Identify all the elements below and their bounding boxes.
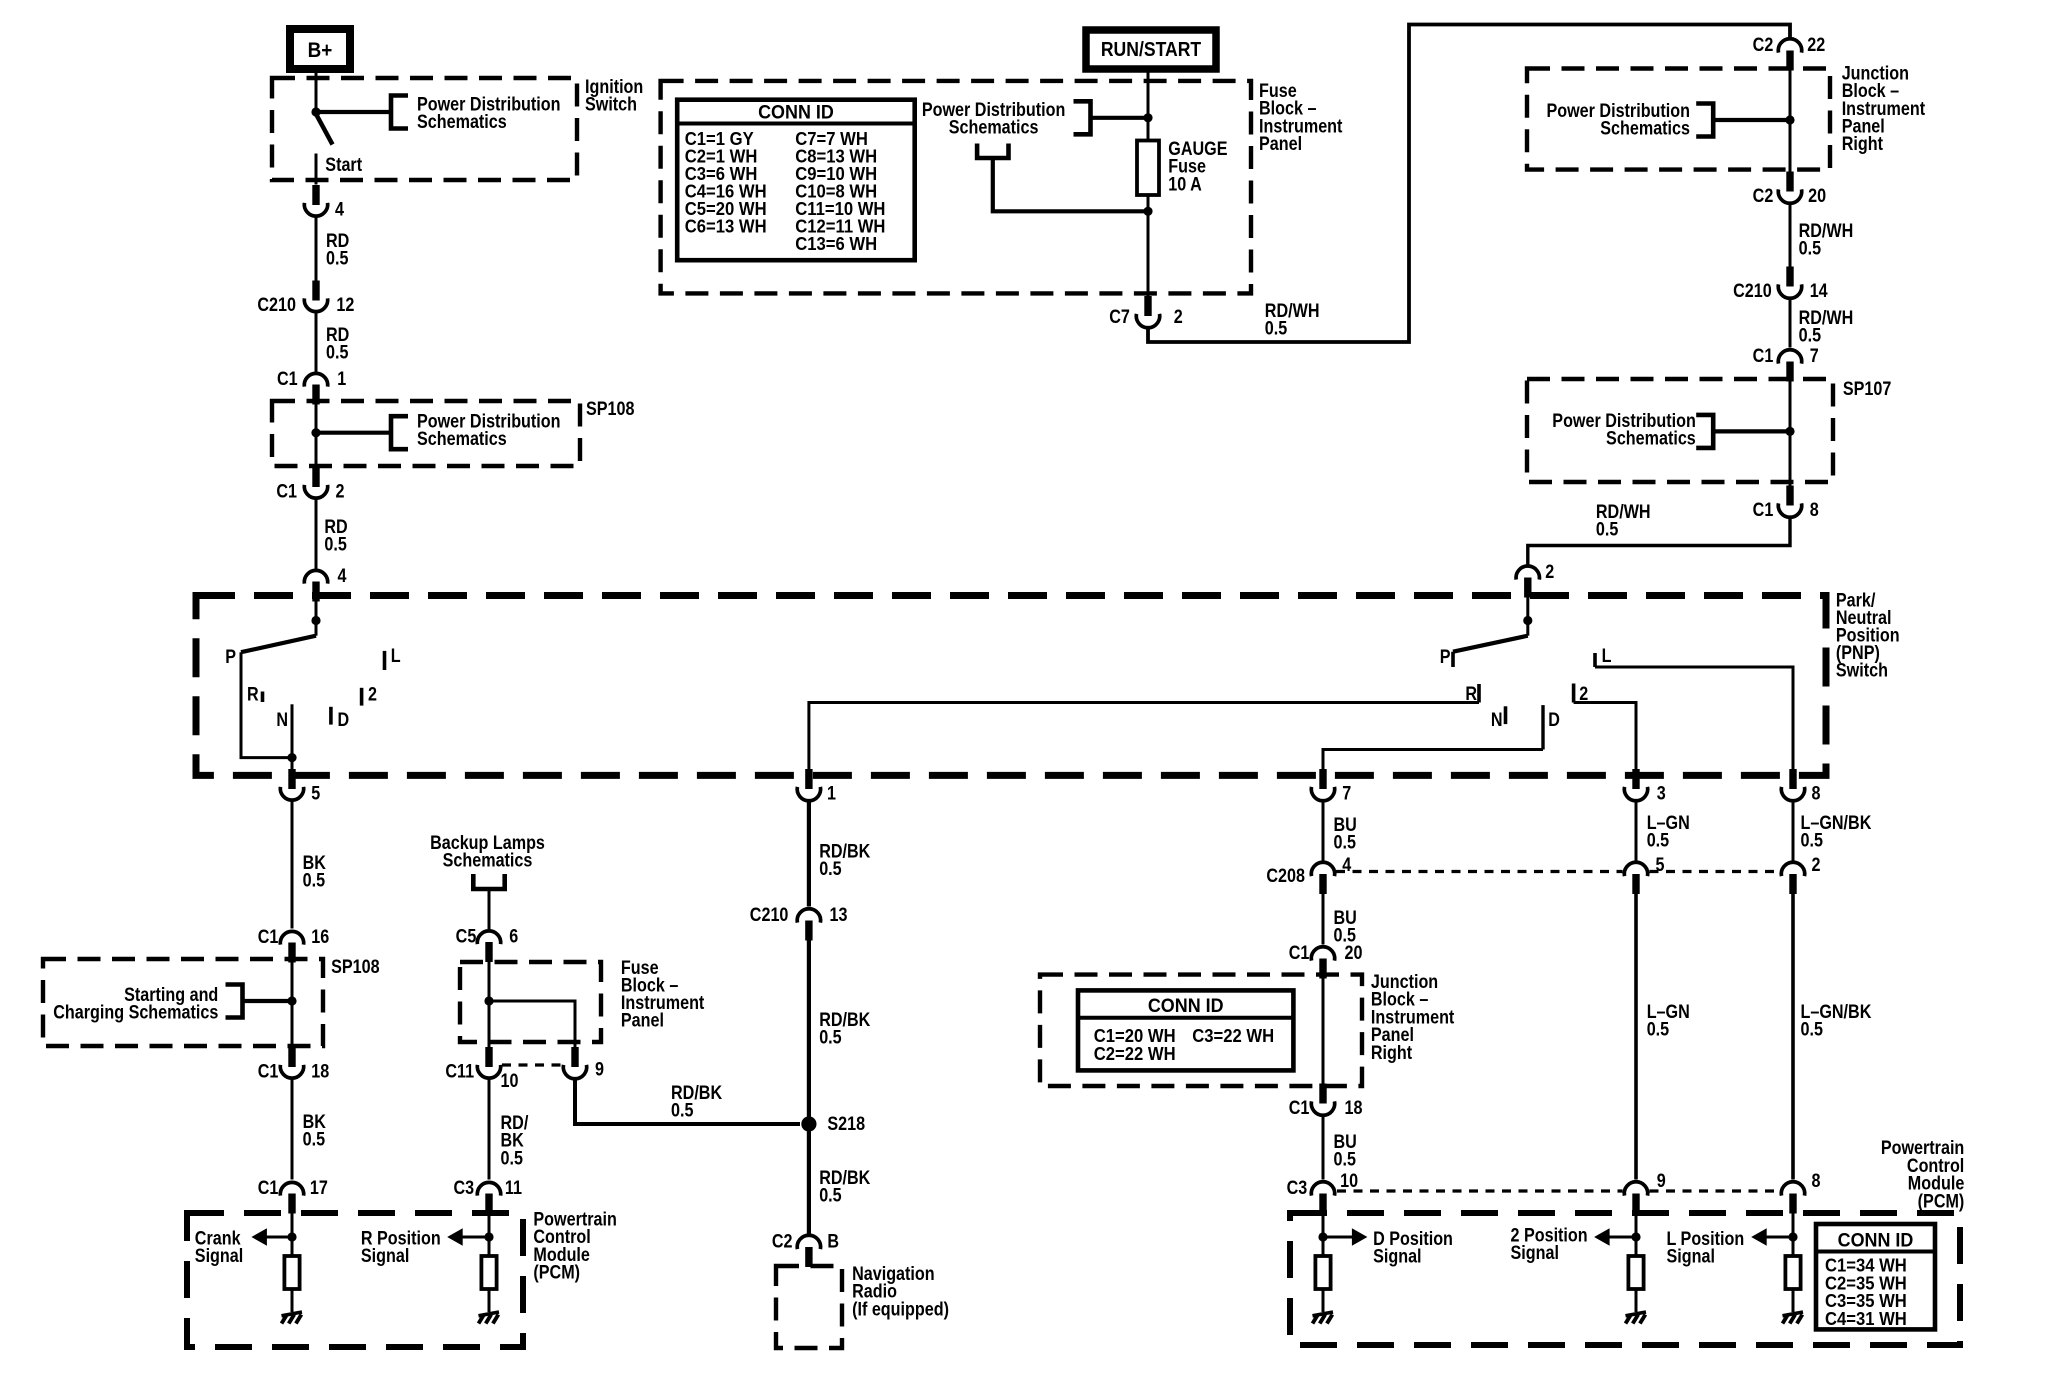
wire L-GN seg1 bbox=[1635, 800, 1638, 861]
svg-text:8: 8 bbox=[1810, 499, 1819, 521]
connector C210 pin 13 bbox=[797, 909, 820, 941]
table CONN ID (PCM) bbox=[1816, 1224, 1935, 1329]
svg-text:Signal: Signal bbox=[195, 1245, 243, 1267]
pin 10 label bbox=[501, 1070, 519, 1092]
svg-text:S218: S218 bbox=[827, 1113, 865, 1135]
svg-text:C13=6 WH: C13=6 WH bbox=[795, 233, 877, 254]
svg-text:2: 2 bbox=[368, 683, 377, 705]
svg-text:N: N bbox=[276, 709, 288, 731]
svg-text:C2=22 WH: C2=22 WH bbox=[1094, 1043, 1176, 1064]
pin 3 label bbox=[1657, 782, 1666, 804]
label C208 bbox=[1266, 865, 1305, 887]
svg-text:Switch: Switch bbox=[585, 93, 637, 115]
svg-text:20: 20 bbox=[1345, 942, 1363, 964]
pin 7 label bbox=[1810, 345, 1819, 367]
label R (left) bbox=[247, 683, 259, 705]
svg-text:N: N bbox=[1491, 709, 1503, 731]
resistor PCM D position bbox=[1315, 1256, 1330, 1289]
label L (right) bbox=[1602, 645, 1612, 667]
fuse block - instrument panel box (small) bbox=[460, 962, 601, 1042]
splice S218 bbox=[801, 1116, 816, 1131]
label GAUGE Fuse 10 A bbox=[1168, 138, 1227, 195]
arrow R position signal bbox=[447, 1228, 463, 1246]
reference bracket starting and charging bbox=[226, 985, 243, 1018]
junction L position signal bbox=[1788, 1232, 1797, 1241]
pin 20 label bbox=[1808, 185, 1826, 207]
svg-text:0.5: 0.5 bbox=[1799, 324, 1822, 346]
svg-text:C4=31 WH: C4=31 WH bbox=[1825, 1308, 1907, 1329]
splice SP108 bottom junction bbox=[287, 996, 296, 1005]
wire label BU (1) bbox=[1334, 814, 1357, 853]
svg-text:1: 1 bbox=[827, 782, 836, 804]
label C2 (B) bbox=[772, 1230, 793, 1252]
label C1 (18 left) bbox=[258, 1060, 279, 1082]
wire label RD 0.5 (3) bbox=[324, 516, 347, 555]
ignition switch box bbox=[272, 78, 577, 180]
wire RUN/START to fuse bbox=[1147, 69, 1150, 141]
svg-text:R: R bbox=[247, 683, 259, 705]
wire label RD/BK (3) bbox=[819, 1167, 870, 1206]
reference bracket power distribution (fuse bottom) bbox=[977, 144, 1008, 159]
ground (2 position) bbox=[1626, 1312, 1647, 1324]
svg-text:0.5: 0.5 bbox=[1801, 1018, 1824, 1040]
wire fuse to C7 bbox=[1147, 195, 1150, 296]
wire P contact to pin 5 (left) bbox=[241, 652, 292, 757]
connector C210 pin 12 bbox=[304, 281, 327, 312]
wire label BK 0.5 (2) bbox=[303, 1111, 327, 1150]
wire label L-GN/BK (1) bbox=[1801, 812, 1872, 851]
pin 8 label (PCM) bbox=[1812, 1170, 1821, 1192]
pin 9 label bbox=[595, 1058, 604, 1080]
pin B label bbox=[827, 1230, 839, 1252]
junction block - instrument panel right box (top) bbox=[1527, 69, 1830, 170]
label Power Distribution Schematics (SP107) bbox=[1552, 410, 1696, 449]
connector C1 pin 20 bbox=[1311, 947, 1334, 979]
table CONN ID (junction block) bbox=[1078, 990, 1293, 1070]
reference bracket power distribution (junction) bbox=[1696, 104, 1713, 137]
contact N (right) bbox=[1504, 706, 1508, 724]
connector pin 4 (ignition switch) bbox=[304, 185, 327, 216]
junction crank signal bbox=[287, 1232, 296, 1241]
wire RD 0.5 seg3 bbox=[315, 498, 318, 571]
label D (left) bbox=[338, 709, 350, 731]
wire label RD 0.5 (1) bbox=[326, 230, 349, 269]
wire resistor to ground (L) bbox=[1792, 1289, 1795, 1312]
label R Position Signal bbox=[361, 1227, 441, 1266]
ground (D position) bbox=[1313, 1312, 1334, 1324]
wire D position signal bbox=[1323, 1236, 1352, 1239]
wire BU seg2 bbox=[1322, 894, 1325, 945]
contact 2 (right) bbox=[1572, 684, 1576, 703]
svg-text:C1: C1 bbox=[1289, 1097, 1310, 1119]
wire through junction block top bbox=[1789, 70, 1792, 172]
label SP107 bbox=[1843, 378, 1892, 400]
fuse GAUGE 10A bbox=[1137, 141, 1159, 196]
wire R position signal bbox=[461, 1236, 489, 1239]
connector pin 2 (PNP right) bbox=[1516, 566, 1539, 597]
wire 2 position signal bbox=[1608, 1236, 1636, 1239]
label R (right) bbox=[1465, 683, 1477, 705]
contact L (left) bbox=[383, 651, 387, 670]
svg-text:0.5: 0.5 bbox=[1647, 829, 1670, 851]
svg-text:2: 2 bbox=[1812, 854, 1821, 876]
connector row dotted line (9-8) bbox=[1650, 1189, 1780, 1192]
label C2 (20) bbox=[1753, 185, 1774, 207]
svg-text:C2: C2 bbox=[772, 1230, 793, 1252]
svg-text:13: 13 bbox=[830, 904, 848, 926]
wire to connector 9 bbox=[489, 1001, 575, 1047]
label C1 (8) bbox=[1753, 499, 1774, 521]
wire label RD/WH (C210-14) bbox=[1799, 307, 1854, 346]
label Park/Neutral Position (PNP) Switch bbox=[1836, 589, 1900, 681]
wire RD/BK seg3 bbox=[807, 1132, 811, 1235]
junction backup lamp feed bbox=[484, 996, 493, 1005]
label L (left) bbox=[391, 645, 401, 667]
label Fuse Block IP (small) bbox=[621, 957, 705, 1031]
svg-text:Panel: Panel bbox=[621, 1009, 664, 1031]
svg-text:10: 10 bbox=[1340, 1170, 1358, 1192]
wire label L-GN (1) bbox=[1647, 812, 1690, 851]
wire label BU (3) bbox=[1334, 1131, 1357, 1170]
wire label RD 0.5 (2) bbox=[326, 324, 349, 363]
wire L-GN/BK seg1 bbox=[1792, 800, 1795, 861]
connector pin 2 (C208 row) bbox=[1781, 862, 1804, 894]
junction fuse bottom bbox=[1143, 207, 1152, 216]
label Junction Block IP Right (bottom) bbox=[1371, 971, 1455, 1063]
label C1 (7) bbox=[1753, 345, 1774, 367]
connector pin 9 (fuse block) bbox=[563, 1047, 586, 1079]
svg-text:0.5: 0.5 bbox=[819, 858, 842, 880]
svg-text:5: 5 bbox=[1656, 854, 1665, 876]
svg-text:C1: C1 bbox=[258, 926, 279, 948]
svg-text:C1: C1 bbox=[1289, 942, 1310, 964]
wire Start contact bbox=[315, 154, 318, 185]
pin 2 label (C208 row) bbox=[1812, 854, 1821, 876]
pin 9 label (PCM) bbox=[1657, 1170, 1666, 1192]
connector C1 pin 8 bbox=[1778, 486, 1801, 518]
contact 2 (left) bbox=[360, 688, 364, 706]
wire 2 contact to pin 3 bbox=[1574, 703, 1636, 772]
svg-text:SP108: SP108 bbox=[331, 956, 380, 978]
label D (right) bbox=[1548, 709, 1560, 731]
wire L-GN seg2 bbox=[1634, 894, 1638, 1180]
wire label RD/WH 0.5 (C7) bbox=[1265, 300, 1320, 339]
connector row dotted line (5-2) bbox=[1650, 870, 1780, 873]
connector pin 3 (PNP) bbox=[1624, 769, 1647, 801]
pin 4 label (C208) bbox=[1342, 854, 1351, 876]
wire fuse output reference bbox=[993, 158, 1148, 211]
label C1 (pin2) bbox=[276, 480, 297, 502]
wire resistor to ground (D) bbox=[1322, 1289, 1325, 1312]
svg-text:0.5: 0.5 bbox=[1334, 1148, 1357, 1170]
ground (L position) bbox=[1783, 1312, 1804, 1324]
connector row dotted line (C11-9) bbox=[502, 1063, 563, 1066]
connector C210 pin 14 bbox=[1778, 267, 1801, 299]
svg-text:C210: C210 bbox=[750, 904, 789, 926]
label Start bbox=[325, 154, 362, 176]
label C3 (11) bbox=[453, 1177, 474, 1199]
label C210 bbox=[257, 294, 296, 316]
label 2 (left) bbox=[368, 683, 377, 705]
connector C1 pin 2 bbox=[304, 467, 327, 498]
wire BK 0.5 (2) bbox=[291, 1078, 294, 1180]
label Power Distribution Schematics (fuse block) bbox=[922, 99, 1065, 138]
svg-text:C5: C5 bbox=[456, 925, 477, 947]
label L Position Signal bbox=[1667, 1228, 1745, 1267]
label C5 bbox=[456, 925, 477, 947]
wire R contact to pin 1 bbox=[809, 703, 1479, 772]
svg-text:Schematics: Schematics bbox=[417, 428, 507, 450]
svg-text:9: 9 bbox=[1657, 1170, 1666, 1192]
svg-text:0.5: 0.5 bbox=[1801, 829, 1824, 851]
junction PNP left common bbox=[311, 616, 320, 625]
wire into PCM (R position) bbox=[488, 1213, 491, 1256]
resistor PCM L position bbox=[1785, 1256, 1800, 1289]
wire label RD/BK (1) bbox=[819, 840, 870, 879]
label Starting and Charging Schematics bbox=[53, 984, 218, 1023]
svg-text:0.5: 0.5 bbox=[303, 1128, 326, 1150]
svg-text:SP108: SP108 bbox=[586, 398, 635, 420]
wire label RD/BK 0.5 (C11) bbox=[501, 1112, 529, 1169]
svg-text:Start: Start bbox=[325, 154, 362, 176]
svg-text:C1: C1 bbox=[277, 368, 298, 390]
pin 2 label (C7) bbox=[1174, 306, 1183, 328]
svg-text:Right: Right bbox=[1842, 133, 1883, 155]
label P (left) bbox=[225, 646, 236, 668]
label P (right) bbox=[1440, 646, 1451, 668]
svg-text:6: 6 bbox=[509, 925, 518, 947]
wire B+ to ignition switch common bbox=[315, 69, 318, 112]
svg-text:0.5: 0.5 bbox=[501, 1147, 524, 1169]
svg-text:(If equipped): (If equipped) bbox=[852, 1298, 949, 1320]
pin 8 label bbox=[1810, 499, 1819, 521]
label C1 (18 right) bbox=[1289, 1097, 1310, 1119]
wire into PNP switch bbox=[315, 602, 318, 636]
pin 5 label bbox=[311, 782, 320, 804]
svg-text:SP107: SP107 bbox=[1843, 378, 1892, 400]
reference bracket power distribution (ignition) bbox=[391, 96, 408, 129]
pin 22 label bbox=[1807, 34, 1825, 56]
arrow crank signal bbox=[251, 1228, 267, 1246]
connector pin 9 (PCM) bbox=[1624, 1182, 1647, 1214]
svg-text:0.5: 0.5 bbox=[326, 341, 349, 363]
powertrain control module box (left) bbox=[187, 1213, 523, 1347]
svg-text:3: 3 bbox=[1657, 782, 1666, 804]
label Power Distribution Schematics (SP108) bbox=[417, 410, 560, 449]
svg-text:Schematics: Schematics bbox=[949, 116, 1039, 138]
connector pin 4 (PNP switch) bbox=[304, 570, 327, 601]
svg-text:D: D bbox=[1548, 709, 1560, 731]
label C1 (16) bbox=[258, 926, 279, 948]
label C7 bbox=[1109, 306, 1130, 328]
wire BU seg1 bbox=[1322, 800, 1325, 861]
pin 17 label bbox=[310, 1177, 328, 1199]
contact R (right) bbox=[1477, 684, 1481, 703]
wire RD 0.5 seg2 bbox=[315, 311, 318, 373]
connector C7 pin 2 bbox=[1136, 296, 1159, 328]
pin 4 label (PNP) bbox=[338, 565, 347, 587]
wire label RD/WH (C2-20) bbox=[1799, 220, 1854, 259]
switch blade right (P) bbox=[1453, 636, 1528, 652]
label PCM (right) bbox=[1881, 1137, 1965, 1212]
connector C1 pin 7 bbox=[1778, 350, 1801, 382]
table CONN ID (fuse block) bbox=[677, 100, 915, 261]
svg-text:C1: C1 bbox=[1753, 345, 1774, 367]
splice box SP108 (top) bbox=[272, 401, 580, 466]
svg-text:12: 12 bbox=[336, 294, 354, 316]
connector C2 pin B bbox=[797, 1235, 820, 1267]
splice box SP107 bbox=[1527, 379, 1833, 482]
svg-text:0.5: 0.5 bbox=[1334, 831, 1357, 853]
svg-text:20: 20 bbox=[1808, 185, 1826, 207]
powertrain control module box (right) bbox=[1290, 1213, 1960, 1345]
label S218 bbox=[827, 1113, 865, 1135]
svg-text:C208: C208 bbox=[1266, 865, 1305, 887]
connector C5 pin 6 bbox=[477, 931, 500, 962]
label N (left) bbox=[276, 709, 288, 731]
connector C1 pin 1 bbox=[304, 373, 327, 404]
svg-text:CONN ID: CONN ID bbox=[1148, 994, 1224, 1016]
resistor PCM R position bbox=[481, 1256, 496, 1289]
pin 18 label (right) bbox=[1345, 1097, 1363, 1119]
connector C1 pin 17 bbox=[280, 1182, 303, 1213]
connector C2 pin 20 bbox=[1778, 172, 1801, 204]
wire RD/WH seg1 bbox=[1789, 202, 1792, 267]
svg-text:0.5: 0.5 bbox=[819, 1026, 842, 1048]
pin 8 label bbox=[1812, 782, 1821, 804]
svg-text:8: 8 bbox=[1812, 1170, 1821, 1192]
svg-text:C11: C11 bbox=[445, 1060, 474, 1082]
wire into PCM (crank) bbox=[291, 1213, 294, 1256]
wire L position signal bbox=[1765, 1236, 1793, 1239]
wire through junction block bottom bbox=[1322, 978, 1325, 1084]
wire to C5 bbox=[488, 889, 491, 930]
svg-text:P: P bbox=[1440, 646, 1451, 668]
svg-text:14: 14 bbox=[1810, 280, 1828, 302]
junction D position signal bbox=[1318, 1232, 1327, 1241]
wire through SP107 bbox=[1789, 381, 1792, 486]
wire D contact to pin 7 bbox=[1323, 750, 1543, 772]
svg-text:CONN ID: CONN ID bbox=[758, 101, 834, 123]
junction P-N (left) bbox=[287, 753, 296, 762]
svg-text:0.5: 0.5 bbox=[1265, 317, 1288, 339]
svg-text:Switch: Switch bbox=[1836, 659, 1888, 681]
svg-text:Schematics: Schematics bbox=[1606, 427, 1696, 449]
park/neutral position switch box bbox=[196, 596, 1826, 776]
arrow L position signal bbox=[1751, 1228, 1767, 1246]
label C210 (14) bbox=[1733, 280, 1772, 302]
svg-text:C2: C2 bbox=[1753, 34, 1774, 56]
svg-text:C3: C3 bbox=[1287, 1177, 1308, 1199]
svg-text:0.5: 0.5 bbox=[326, 247, 349, 269]
reference bracket power distribution (SP107) bbox=[1696, 415, 1713, 448]
svg-text:9: 9 bbox=[595, 1058, 604, 1080]
label SP108 (top) bbox=[586, 398, 635, 420]
label Fuse Block - Instrument Panel bbox=[1259, 80, 1343, 155]
wire through SP108 bbox=[315, 404, 318, 467]
wire label L-GN/BK (2) bbox=[1801, 1001, 1872, 1040]
connector C208 pin 4 bbox=[1311, 862, 1334, 894]
label C1 (17) bbox=[258, 1177, 279, 1199]
svg-text:0.5: 0.5 bbox=[819, 1184, 842, 1206]
reference bracket backup lamps bbox=[473, 874, 504, 889]
wire into PCM (2 position) bbox=[1635, 1213, 1638, 1256]
svg-text:7: 7 bbox=[1810, 345, 1819, 367]
fuse block - instrument panel box bbox=[661, 81, 1251, 294]
svg-text:Schematics: Schematics bbox=[1600, 117, 1690, 139]
connector pin 7 (PNP) bbox=[1311, 769, 1334, 801]
wire resistor to ground (R) bbox=[488, 1289, 491, 1312]
navigation radio box bbox=[776, 1266, 842, 1348]
pin 18 label (left) bbox=[311, 1060, 329, 1082]
label D Position Signal bbox=[1373, 1228, 1453, 1267]
wire through SP108 bottom bbox=[291, 962, 294, 1047]
wire into PCM (D position) bbox=[1322, 1213, 1325, 1256]
connector pin 1 (PNP) bbox=[797, 769, 820, 801]
wire through small fuse block bbox=[488, 962, 491, 1048]
wire label BK 0.5 (1) bbox=[303, 852, 327, 891]
wire L contact to pin 8 bbox=[1595, 667, 1793, 772]
wire to power distribution reference bbox=[316, 110, 391, 114]
svg-text:18: 18 bbox=[311, 1060, 329, 1082]
wire RD/WH seg2 bbox=[1789, 297, 1792, 348]
svg-text:2: 2 bbox=[1174, 306, 1183, 328]
svg-text:C210: C210 bbox=[257, 294, 296, 316]
pin 4 label bbox=[335, 198, 344, 220]
svg-text:0.5: 0.5 bbox=[671, 1099, 694, 1121]
reference bracket power distribution (SP108) bbox=[391, 416, 408, 449]
wire to starting and charging reference bbox=[243, 999, 293, 1003]
svg-text:17: 17 bbox=[310, 1177, 328, 1199]
contact P (right) bbox=[1451, 652, 1455, 667]
svg-text:C1: C1 bbox=[1753, 499, 1774, 521]
label C1 (20) bbox=[1289, 942, 1310, 964]
svg-text:4: 4 bbox=[338, 565, 347, 587]
svg-text:4: 4 bbox=[335, 198, 344, 220]
svg-text:2: 2 bbox=[336, 480, 345, 502]
svg-text:0.5: 0.5 bbox=[1799, 237, 1822, 259]
arrow 2 position signal bbox=[1594, 1228, 1610, 1246]
wire to power distribution reference (SP108) bbox=[316, 431, 391, 435]
ignition switch blade (Start) bbox=[316, 114, 333, 145]
pin 12 label bbox=[336, 294, 354, 316]
label Backup Lamps Schematics bbox=[430, 832, 545, 871]
label C210 (13) bbox=[750, 904, 789, 926]
junction ignition feed bbox=[311, 107, 320, 116]
svg-text:10: 10 bbox=[501, 1070, 519, 1092]
wire to pin 5 bbox=[291, 758, 294, 772]
wire RD/WH to PNP pin 2 bbox=[1528, 516, 1790, 565]
power symbol B+ bbox=[290, 29, 350, 69]
connector pin 5 (C208 row) bbox=[1624, 862, 1647, 894]
svg-text:10 A: 10 A bbox=[1168, 173, 1202, 195]
svg-text:Signal: Signal bbox=[1667, 1245, 1715, 1267]
pin 20 label bbox=[1345, 942, 1363, 964]
contact D (left) bbox=[329, 707, 333, 725]
wire into PCM (L position) bbox=[1792, 1213, 1795, 1256]
resistor PCM 2 position bbox=[1628, 1256, 1643, 1289]
connector row dotted line (C3-9) bbox=[1337, 1189, 1623, 1192]
label C1 (pin1) bbox=[277, 368, 298, 390]
svg-text:Right: Right bbox=[1371, 1042, 1412, 1064]
svg-text:C1: C1 bbox=[258, 1060, 279, 1082]
pin 5 label (C208 row) bbox=[1656, 854, 1665, 876]
svg-text:C1: C1 bbox=[276, 480, 297, 502]
label Ignition Switch bbox=[585, 76, 643, 115]
svg-text:Signal: Signal bbox=[1511, 1242, 1559, 1264]
junction block - instrument panel right box (bottom) bbox=[1040, 975, 1362, 1086]
svg-text:2: 2 bbox=[1545, 561, 1554, 583]
